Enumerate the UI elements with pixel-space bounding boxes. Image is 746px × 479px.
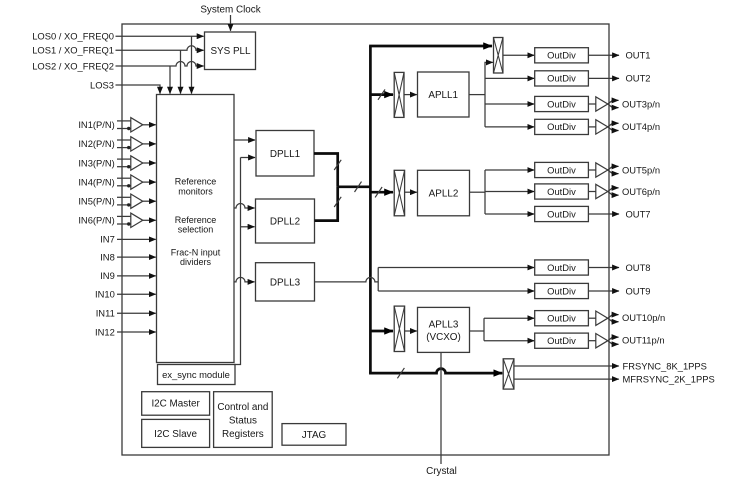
slash bus mark on frame-sync feed bbox=[397, 368, 404, 378]
svg-text:monitors: monitors bbox=[178, 187, 213, 197]
wire APLL1 distribution vertical bbox=[485, 62, 493, 127]
wire DPLL merge to distribution trunk (thick) bbox=[338, 185, 371, 188]
wire APLL2 mux to APLL2 bbox=[405, 191, 417, 193]
slash bus mark on merged DPLL line bbox=[355, 182, 362, 192]
output buffer OUT3 bbox=[588, 103, 595, 105]
svg-text:DPLL2: DPLL2 bbox=[270, 217, 300, 228]
wire IN2 buffer to reference monitors bbox=[143, 143, 156, 145]
wire IN11 to reference monitors bbox=[117, 312, 156, 314]
wire OUT4 p/n pads bbox=[608, 123, 619, 127]
wire OUT8/OUT9 split vertical bbox=[377, 268, 379, 292]
box I2C Master bbox=[142, 392, 210, 416]
wire IN1 buffer to reference monitors bbox=[143, 124, 156, 126]
svg-text:Control and: Control and bbox=[217, 402, 268, 413]
svg-text:OUT8: OUT8 bbox=[626, 262, 651, 273]
mux (crossed box) before APLL2 bbox=[394, 170, 404, 216]
box I2C Slave bbox=[142, 419, 210, 447]
svg-text:OUT2: OUT2 bbox=[626, 73, 651, 84]
svg-text:OUT10p/n: OUT10p/n bbox=[622, 312, 665, 323]
wire APLL3 mux to APLL3 bbox=[405, 330, 417, 332]
wire IN7 to reference monitors bbox=[117, 238, 156, 240]
svg-text:I2C Master: I2C Master bbox=[151, 399, 200, 410]
svg-text:OUT7: OUT7 bbox=[626, 208, 651, 219]
svg-text:APLL3: APLL3 bbox=[429, 319, 459, 330]
wire reference selection to DPLL3 input (hop over ex_sync line) bbox=[234, 277, 255, 282]
svg-text:IN2(P/N): IN2(P/N) bbox=[78, 138, 114, 149]
svg-text:OutDiv: OutDiv bbox=[547, 50, 576, 61]
wire ex_sync to DPLL1 input 2 bbox=[241, 157, 256, 159]
wire IN6 buffer to reference monitors bbox=[143, 219, 156, 221]
box OutDiv for OUT7 bbox=[535, 206, 589, 221]
wire APLL2 branch to OutDiv OUT5 bbox=[485, 169, 534, 171]
box Control and Status Registers bbox=[214, 392, 273, 448]
svg-text:OUT1: OUT1 bbox=[626, 50, 651, 61]
svg-text:OUT6p/n: OUT6p/n bbox=[622, 186, 660, 197]
wire System Clock to SYS PLL bbox=[230, 15, 232, 31]
wire ex_sync module vertical distribution bbox=[234, 158, 241, 365]
wire reference selection to DPLL2 input 1 (hop over ex_sync line) bbox=[234, 204, 255, 209]
wire LOS3 down into reference monitors bbox=[116, 85, 161, 94]
svg-text:Reference: Reference bbox=[175, 215, 217, 225]
outer chip boundary box bbox=[122, 24, 609, 455]
wire trunk to OUT1 mux (thick, top) bbox=[369, 45, 492, 48]
svg-text:OutDiv: OutDiv bbox=[547, 262, 576, 273]
box DPLL1 bbox=[256, 131, 314, 177]
svg-text:OutDiv: OutDiv bbox=[547, 313, 576, 324]
output buffer OUT10 bbox=[588, 317, 595, 319]
box OutDiv for OUT6 bbox=[535, 184, 589, 199]
wire APLL2 output to distribution vertical bbox=[470, 191, 486, 193]
output buffer OUT6 bbox=[588, 191, 595, 193]
wire APLL3 branch to OutDiv OUT11 bbox=[484, 340, 534, 342]
wire APLL1 branch to OutDiv OUT4 bbox=[485, 126, 534, 128]
svg-text:IN1(P/N): IN1(P/N) bbox=[78, 119, 114, 130]
slash bus mark on DPLL1 output bbox=[334, 160, 341, 170]
svg-text:IN3(P/N): IN3(P/N) bbox=[78, 157, 114, 168]
wire IN10 to reference monitors bbox=[117, 293, 156, 295]
wire IN3 buffer to reference monitors bbox=[143, 162, 156, 164]
wire IN5 buffer to reference monitors bbox=[143, 200, 156, 202]
wire IN4 buffer to reference monitors bbox=[143, 181, 156, 183]
svg-text:JTAG: JTAG bbox=[302, 430, 327, 441]
svg-text:APLL2: APLL2 bbox=[429, 189, 459, 200]
wire OutDiv to OUT9 pad bbox=[588, 290, 619, 292]
wire split to OutDiv OUT8 bbox=[378, 267, 534, 269]
wire APLL3 distribution vertical bbox=[483, 318, 485, 341]
mux (crossed box) for frame sync outputs bbox=[503, 359, 514, 389]
wire LOS1 to SYS PLL (hop over LOS0 drop) bbox=[116, 46, 204, 51]
wire trunk to APLL2 mux (thick) bbox=[370, 191, 393, 194]
wire LOS0 to SYS PLL bbox=[116, 35, 204, 37]
svg-text:IN4(P/N): IN4(P/N) bbox=[78, 176, 114, 187]
box Reference monitors / Reference selection / Frac-N input dividers bbox=[157, 95, 235, 363]
svg-text:IN5(P/N): IN5(P/N) bbox=[78, 196, 114, 207]
box OutDiv for OUT5 bbox=[535, 162, 589, 177]
wire OUT10 p/n pads bbox=[608, 315, 619, 319]
wire split to OutDiv OUT9 bbox=[378, 290, 534, 292]
svg-text:IN11: IN11 bbox=[96, 308, 115, 319]
svg-text:IN6(P/N): IN6(P/N) bbox=[78, 215, 114, 226]
wire reference selection to DPLL1 input 1 bbox=[234, 139, 255, 141]
box OutDiv for OUT3 bbox=[535, 96, 589, 111]
svg-text:LOS1 / XO_FREQ1: LOS1 / XO_FREQ1 bbox=[32, 45, 114, 56]
wire APLL3 branch to OutDiv OUT10 bbox=[484, 317, 534, 319]
wire OUT1 mux to OutDiv OUT1 bbox=[503, 54, 534, 56]
svg-text:I2C Slave: I2C Slave bbox=[154, 429, 197, 440]
svg-text:OUT4p/n: OUT4p/n bbox=[622, 121, 660, 132]
wire DPLL2 output (thick) up to merge bbox=[315, 187, 338, 221]
wire APLL1 branch to OutDiv OUT3 bbox=[485, 103, 534, 105]
wire IN12 to reference monitors bbox=[117, 331, 156, 333]
svg-text:dividers: dividers bbox=[180, 257, 212, 267]
svg-text:OUT5p/n: OUT5p/n bbox=[622, 164, 660, 175]
svg-text:System Clock: System Clock bbox=[200, 5, 260, 16]
svg-text:Registers: Registers bbox=[222, 429, 264, 440]
svg-text:Frac-N input: Frac-N input bbox=[171, 248, 221, 258]
wire APLL1 output to distribution vertical bbox=[469, 94, 485, 96]
box OutDiv for OUT10 bbox=[535, 311, 589, 326]
wire DPLL1 output (thick) down to merge bbox=[314, 154, 338, 187]
wire APLL3 output to distribution vertical bbox=[470, 330, 485, 332]
svg-text:SYS PLL: SYS PLL bbox=[210, 46, 251, 57]
wire LOS2 to SYS PLL (hops over LOS1 and LOS0 drops) bbox=[116, 62, 204, 67]
wire Crystal to APLL3 bbox=[440, 353, 442, 465]
svg-text:LOS3: LOS3 bbox=[90, 79, 114, 90]
svg-text:OutDiv: OutDiv bbox=[547, 121, 576, 132]
wire APLL1 branch to OutDiv OUT2 bbox=[485, 77, 534, 79]
wire ex_sync to DPLL2 input 2 bbox=[241, 226, 255, 228]
slash bus mark on DPLL2 output bbox=[334, 197, 341, 207]
wire trunk to APLL1 mux (thick) bbox=[370, 93, 393, 96]
box APLL3 (VCXO) bbox=[418, 307, 470, 352]
svg-text:OUT11p/n: OUT11p/n bbox=[622, 334, 665, 345]
wire OUT6 p/n pads bbox=[608, 188, 619, 192]
box APLL2 bbox=[418, 170, 470, 216]
svg-text:LOS2 / XO_FREQ2: LOS2 / XO_FREQ2 bbox=[32, 60, 114, 71]
wire IN8 to reference monitors bbox=[117, 256, 156, 258]
svg-text:OUT3p/n: OUT3p/n bbox=[622, 98, 660, 109]
svg-text:OutDiv: OutDiv bbox=[547, 285, 576, 296]
wire frame-sync mux to FRSYNC_8K_1PPS pad bbox=[514, 365, 619, 367]
wire trunk to frame-sync mux (thick, hop over crystal line) bbox=[370, 369, 502, 374]
svg-text:IN12: IN12 bbox=[95, 326, 115, 337]
box ex_sync module bbox=[158, 365, 236, 385]
box SYS PLL U-SYSPLL bbox=[205, 32, 256, 70]
wire LOS1 branch down to reference monitors bbox=[180, 50, 182, 93]
wire OutDiv to OUT1 pad bbox=[588, 54, 619, 56]
wire APLL2 branch to OutDiv OUT6 bbox=[485, 191, 534, 193]
svg-text:MFRSYNC_2K_1PPS: MFRSYNC_2K_1PPS bbox=[623, 373, 715, 384]
wire trunk to APLL3 mux (thick) bbox=[370, 330, 393, 333]
svg-text:DPLL3: DPLL3 bbox=[270, 277, 301, 288]
wire DPLL3 output (hop over trunk) to OUT8/OUT9 split bbox=[315, 277, 379, 282]
svg-text:Crystal: Crystal bbox=[426, 466, 457, 477]
wire OutDiv to OUT8 pad bbox=[588, 267, 619, 269]
slash bus mark on APLL1 feed bbox=[378, 89, 385, 99]
box APLL1 bbox=[418, 72, 470, 117]
box JTAG bbox=[282, 424, 346, 446]
svg-text:FRSYNC_8K_1PPS: FRSYNC_8K_1PPS bbox=[623, 360, 707, 371]
output buffer OUT4 bbox=[588, 126, 595, 128]
svg-text:OutDiv: OutDiv bbox=[547, 335, 576, 346]
wire OUT3 p/n pads bbox=[608, 100, 619, 104]
box OutDiv for OUT1 bbox=[535, 48, 589, 63]
wire frame-sync mux to MFRSYNC_2K_1PPS pad bbox=[514, 378, 619, 380]
box DPLL2 bbox=[256, 199, 315, 243]
mux (crossed box) before APLL1 bbox=[394, 72, 404, 117]
svg-text:Reference: Reference bbox=[175, 177, 217, 187]
wire APLL1 mux to APLL1 bbox=[404, 94, 417, 96]
svg-text:(VCXO): (VCXO) bbox=[426, 332, 461, 343]
box DPLL3 bbox=[256, 263, 315, 301]
wire OutDiv to OUT7 pad bbox=[588, 213, 619, 215]
svg-text:OUT9: OUT9 bbox=[626, 285, 651, 296]
wire OUT11 p/n pads bbox=[608, 337, 619, 341]
box OutDiv for OUT8 bbox=[535, 260, 589, 275]
svg-text:OutDiv: OutDiv bbox=[547, 164, 576, 175]
mux (crossed box) for OUT1 bbox=[494, 38, 503, 74]
wire distribution trunk vertical (thick) bbox=[369, 46, 372, 373]
box OutDiv for OUT4 bbox=[535, 119, 589, 134]
wire OutDiv to OUT2 pad bbox=[588, 77, 619, 79]
svg-text:ex_sync module: ex_sync module bbox=[162, 369, 230, 380]
box OutDiv for OUT9 bbox=[535, 283, 589, 298]
wire APLL2 distribution vertical bbox=[484, 170, 486, 214]
wire LOS0 branch down to reference monitors bbox=[191, 36, 193, 93]
output buffer OUT11 bbox=[588, 340, 595, 342]
box OutDiv for OUT2 bbox=[535, 71, 589, 86]
svg-text:Status: Status bbox=[229, 416, 257, 427]
wire LOS2 branch down to reference monitors bbox=[169, 66, 171, 94]
svg-text:IN7: IN7 bbox=[100, 234, 115, 245]
svg-text:OutDiv: OutDiv bbox=[547, 98, 576, 109]
svg-text:LOS0 / XO_FREQ0: LOS0 / XO_FREQ0 bbox=[32, 31, 114, 42]
mux (crossed box) before APLL3 bbox=[394, 306, 404, 351]
svg-text:OutDiv: OutDiv bbox=[547, 73, 576, 84]
wire OUT5 p/n pads bbox=[608, 166, 619, 170]
svg-text:OutDiv: OutDiv bbox=[547, 208, 576, 219]
output buffer OUT5 bbox=[588, 169, 595, 171]
wire APLL2 branch to OutDiv OUT7 bbox=[485, 213, 534, 215]
svg-text:IN10: IN10 bbox=[95, 289, 115, 300]
svg-text:IN9: IN9 bbox=[100, 270, 115, 281]
wire IN9 to reference monitors bbox=[117, 275, 156, 277]
svg-text:selection: selection bbox=[178, 225, 214, 235]
svg-text:IN8: IN8 bbox=[100, 251, 115, 262]
slash bus mark on APLL2 feed bbox=[375, 187, 382, 197]
svg-text:OutDiv: OutDiv bbox=[547, 186, 576, 197]
svg-text:DPLL1: DPLL1 bbox=[270, 149, 301, 160]
box OutDiv for OUT11 bbox=[535, 333, 589, 348]
svg-text:APLL1: APLL1 bbox=[428, 90, 458, 101]
